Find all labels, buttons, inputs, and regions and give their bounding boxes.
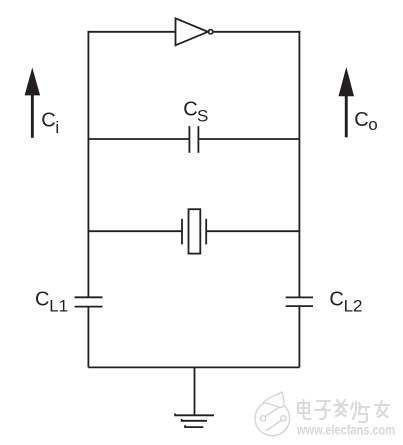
arrow Ci	[25, 68, 40, 138]
capacitor CS	[189, 126, 198, 153]
wire ground stem	[194, 367, 196, 415]
svg-text:C: C	[354, 109, 368, 131]
capacitor CL1	[75, 297, 103, 306]
label Co	[354, 109, 377, 134]
wire right vertical upper	[298, 31, 300, 298]
wire Cs row left	[88, 138, 189, 140]
wire left vertical upper	[87, 31, 89, 297]
wire crystal row left	[88, 230, 182, 232]
svg-text:L1: L1	[49, 296, 68, 315]
watermark chinese text	[298, 400, 389, 422]
wire top-right horizontal	[214, 31, 301, 33]
wire Cs row right	[198, 138, 299, 140]
watermark url text	[296, 422, 395, 438]
wire bottom horizontal	[88, 366, 299, 368]
watermark logo	[255, 392, 290, 436]
svg-text:www.elecfans.com: www.elecfans.com	[296, 422, 395, 438]
svg-text:o: o	[368, 115, 377, 134]
wire left vertical lower	[87, 307, 89, 368]
svg-text:C: C	[183, 98, 197, 120]
label CL1	[35, 288, 68, 315]
ground	[175, 414, 214, 428]
svg-text:C: C	[329, 288, 343, 310]
svg-text:L2: L2	[344, 296, 363, 315]
svg-text:i: i	[55, 118, 59, 137]
arrow Co	[339, 67, 355, 137]
label CS	[183, 98, 208, 125]
capacitor CL2	[286, 297, 313, 306]
svg-text:S: S	[197, 107, 208, 126]
wire top-left horizontal	[88, 31, 176, 33]
wire right vertical lower	[298, 306, 300, 367]
wire crystal row right	[206, 230, 299, 232]
svg-text:C: C	[41, 110, 55, 132]
inverter U1	[176, 18, 213, 45]
svg-text:C: C	[35, 288, 49, 310]
label CL2	[329, 288, 362, 315]
crystal Y1	[182, 209, 206, 253]
label Ci	[41, 110, 59, 138]
